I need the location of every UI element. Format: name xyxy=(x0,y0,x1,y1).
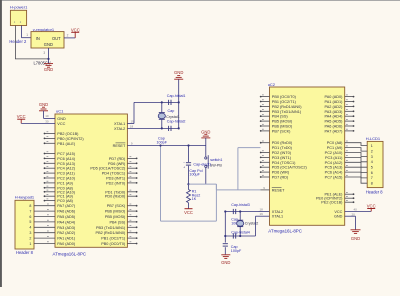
svg-text:XTAL2: XTAL2 xyxy=(272,210,283,214)
svg-text:PD6 (WR): PD6 (WR) xyxy=(108,162,126,166)
svg-text:PA6 (AD6): PA6 (AD6) xyxy=(57,210,76,214)
svg-text:PB2 (RxD1/AIN0): PB2 (RxD1/AIN0) xyxy=(272,105,302,109)
svg-text:2: 2 xyxy=(29,236,31,240)
wire routing loop vertical V2 xyxy=(215,184,217,221)
MCU U2 left pin stub PD0 xyxy=(261,142,270,144)
svg-text:7: 7 xyxy=(371,176,373,180)
svg-text:PC1 (A9): PC1 (A9) xyxy=(327,146,343,150)
switch S1 contacts and lever xyxy=(205,146,207,157)
svg-text:PE2 (OC1B): PE2 (OC1B) xyxy=(321,201,343,205)
svg-text:PD1 (TxD0): PD1 (TxD0) xyxy=(272,146,293,150)
wire ground cap to ground xyxy=(224,247,226,254)
ground symbol at uC2 xyxy=(351,229,361,231)
svg-text:1: 1 xyxy=(29,242,31,246)
svg-text:ATmega16L-8PC: ATmega16L-8PC xyxy=(268,229,302,234)
svg-text:PB4 (SS): PB4 (SS) xyxy=(272,115,289,119)
wire right reset jog H3 xyxy=(215,184,217,190)
svg-text:Crystal1: Crystal1 xyxy=(166,115,180,119)
wire serial vertical V3 xyxy=(237,148,239,190)
wire header pin1 to regulator IN xyxy=(21,26,23,38)
svg-text:GND: GND xyxy=(201,129,210,134)
svg-text:PB2 (RxD1/AIN0): PB2 (RxD1/AIN0) xyxy=(96,231,126,235)
svg-text:PB1 (ALE): PB1 (ALE) xyxy=(57,142,76,146)
svg-text:Cap-histal2: Cap-histal2 xyxy=(167,120,186,124)
svg-text:PB2 (OC1B): PB2 (OC1B) xyxy=(57,132,79,136)
wire serial horizontal H4 to uC2 PD1 xyxy=(238,147,261,149)
junction reset rail to right routing xyxy=(187,183,189,185)
wire reset rail lower xyxy=(188,166,190,190)
MCU U1 left pin names xyxy=(57,117,84,246)
svg-text:Crystal2: Crystal2 xyxy=(245,222,259,226)
svg-text:switch1: switch1 xyxy=(210,158,222,162)
svg-text:PA0 (AD0): PA0 (AD0) xyxy=(57,242,76,246)
wire left rail down to ground cap xyxy=(224,212,226,243)
svg-text:Cap-elect1: Cap-elect1 xyxy=(193,162,211,166)
svg-text:PD3 (INT1): PD3 (INT1) xyxy=(106,177,126,181)
wire header pin2 to ground rail xyxy=(14,26,16,59)
svg-text:30: 30 xyxy=(45,119,49,123)
svg-text:PB4 (SS): PB4 (SS) xyxy=(109,220,126,224)
MCU U2 left pin stubs PD group xyxy=(260,151,270,178)
capacitor C6 plates in ground rail xyxy=(223,243,228,245)
svg-text:XTAL2: XTAL2 xyxy=(114,127,125,131)
svg-text:PA1 (AD1): PA1 (AD1) xyxy=(325,100,344,104)
svg-text:GND: GND xyxy=(44,67,53,72)
svg-text:PC5 (A13): PC5 (A13) xyxy=(325,166,343,170)
svg-text:PA7 (AD7): PA7 (AD7) xyxy=(325,129,344,133)
svg-text:PD0 (RxD0): PD0 (RxD0) xyxy=(272,141,293,145)
svg-text:PD5 (OC1A/TOSC2): PD5 (OC1A/TOSC2) xyxy=(90,167,126,171)
MCU U1 body ATmega16L-8PC xyxy=(55,114,127,247)
capacitor C5 Cap-elect plates xyxy=(186,162,191,164)
svg-text:8: 8 xyxy=(371,182,373,186)
junction node A dots xyxy=(161,101,163,103)
svg-text:PD7 (RD): PD7 (RD) xyxy=(109,157,126,161)
ground symbol below regulator xyxy=(48,59,50,64)
wire uC1 GND pin xyxy=(43,111,45,119)
svg-text:H-keypad1: H-keypad1 xyxy=(15,194,35,199)
MCU U2 left pin stubs PB group xyxy=(260,95,270,132)
page left border strip xyxy=(0,0,2,287)
svg-text:5: 5 xyxy=(371,166,373,170)
svg-text:VCC: VCC xyxy=(17,114,26,119)
power VCC symbol below R1 xyxy=(185,208,193,210)
wire uC2 GND pin xyxy=(345,215,356,217)
wire ground to reset net xyxy=(205,138,207,146)
svg-text:XTAL1: XTAL1 xyxy=(272,215,283,219)
wires uC2 PC pins to LCD header xyxy=(345,141,368,183)
svg-text:XTAL1: XTAL1 xyxy=(114,122,125,126)
svg-text:PC6 (A14): PC6 (A14) xyxy=(325,171,343,175)
svg-text:PA5 (AD5): PA5 (AD5) xyxy=(325,120,344,124)
svg-text:PD4 (TOSC1): PD4 (TOSC1) xyxy=(272,161,296,165)
svg-text:100pF: 100pF xyxy=(157,140,168,144)
svg-text:PC2 (A10): PC2 (A10) xyxy=(325,151,343,155)
svg-text:19: 19 xyxy=(260,212,264,216)
wire uC1 RESET net xyxy=(127,145,205,147)
MCU U1 left pin stubs PC2-PC0 xyxy=(44,190,55,201)
MCU U1 RESET pin overline xyxy=(116,142,126,144)
svg-text:8: 8 xyxy=(29,204,31,208)
svg-text:RESET: RESET xyxy=(113,144,126,148)
svg-text:PA2 (AD2): PA2 (AD2) xyxy=(57,231,76,235)
wire R1 to VCC xyxy=(188,203,190,209)
svg-text:VCC: VCC xyxy=(71,27,80,32)
svg-text:PD7 (RD): PD7 (RD) xyxy=(272,176,289,180)
svg-text:PA6 (AD6): PA6 (AD6) xyxy=(325,125,344,129)
wire right crystal node D xyxy=(225,235,255,237)
svg-text:PC1 (A9): PC1 (A9) xyxy=(57,181,73,185)
svg-text:GND: GND xyxy=(221,260,230,265)
svg-text:PC7 (A15): PC7 (A15) xyxy=(57,152,75,156)
svg-text:19: 19 xyxy=(131,119,135,123)
svg-text:5: 5 xyxy=(29,220,31,224)
svg-text:PB6 (MISO): PB6 (MISO) xyxy=(272,125,293,129)
svg-text:IN: IN xyxy=(36,36,40,41)
svg-text:4: 4 xyxy=(29,226,31,230)
svg-text:PC3 (A11): PC3 (A11) xyxy=(325,156,343,160)
svg-text:40: 40 xyxy=(354,208,358,212)
wire XTAL1 node A xyxy=(134,101,179,103)
svg-text:3: 3 xyxy=(371,155,373,159)
svg-text:ATmega16L-8PC: ATmega16L-8PC xyxy=(53,251,87,256)
svg-text:GND: GND xyxy=(174,70,183,75)
svg-text:Cap-histal1: Cap-histal1 xyxy=(167,94,186,98)
MCU U2 right pin names xyxy=(316,95,343,219)
svg-text:GND: GND xyxy=(44,42,53,47)
svg-text:VCC: VCC xyxy=(184,210,193,215)
svg-text:PB0 (OC0/T0): PB0 (OC0/T0) xyxy=(272,95,297,99)
resistor R1 zigzag xyxy=(187,190,191,203)
svg-text:PA3 (AD3): PA3 (AD3) xyxy=(325,110,344,114)
svg-text:PD0 (RxD0): PD0 (RxD0) xyxy=(105,195,126,199)
svg-text:Cap-histal4: Cap-histal4 xyxy=(231,230,250,234)
regulator U3 body xyxy=(31,32,64,48)
svg-text:GND: GND xyxy=(57,117,66,121)
svg-text:PC6 (A14): PC6 (A14) xyxy=(57,157,75,161)
wire regulator GND pin down xyxy=(48,48,50,59)
svg-text:20: 20 xyxy=(352,212,356,216)
wire reset rail upper xyxy=(188,146,190,163)
svg-text:PC4 (A12): PC4 (A12) xyxy=(325,161,343,165)
svg-text:Header 8: Header 8 xyxy=(16,250,34,255)
wire uC2 XTAL2 connection xyxy=(259,211,270,213)
wire ground rail to cap node xyxy=(178,79,180,128)
svg-text:PB1 (OC2/T1): PB1 (OC2/T1) xyxy=(101,237,126,241)
junction at regulator ground node xyxy=(47,58,49,60)
svg-text:uC1: uC1 xyxy=(56,109,64,114)
svg-text:−: − xyxy=(183,161,185,165)
svg-text:1: 1 xyxy=(371,144,373,148)
ground symbol right crystal xyxy=(221,254,230,256)
wire right crystal node C xyxy=(225,211,258,213)
MCU U2 left pin names xyxy=(272,95,308,219)
svg-text:OUT: OUT xyxy=(52,36,61,41)
svg-text:PA0 (AD0): PA0 (AD0) xyxy=(325,95,344,99)
junction reset rail top xyxy=(187,144,189,146)
MCU U2 body ATmega16L-8PC xyxy=(270,87,345,225)
svg-text:uC2: uC2 xyxy=(268,82,276,87)
svg-text:PD5 (OC1A/TOSC2): PD5 (OC1A/TOSC2) xyxy=(272,166,308,170)
svg-text:+: + xyxy=(183,166,185,170)
wire uC2 VCC pin xyxy=(345,210,372,212)
wire uC1 XTAL2 node B xyxy=(127,127,178,129)
svg-text:PC2 (A10): PC2 (A10) xyxy=(57,190,75,194)
svg-text:PC0 (A8): PC0 (A8) xyxy=(57,199,73,203)
svg-text:Cap: Cap xyxy=(168,109,175,113)
svg-text:VCC: VCC xyxy=(367,203,376,208)
svg-text:18: 18 xyxy=(130,124,134,128)
page top border line xyxy=(0,0,400,1)
svg-text:PD2 (INT0): PD2 (INT0) xyxy=(106,181,126,185)
svg-text:PD1 (TxD0): PD1 (TxD0) xyxy=(105,190,126,194)
svg-text:PC3 (A11): PC3 (A11) xyxy=(57,172,75,176)
svg-text:PC0 (A8): PC0 (A8) xyxy=(327,141,343,145)
header J3 pin numbers 1..8 xyxy=(371,144,373,186)
svg-text:GND: GND xyxy=(351,236,360,241)
MCU U1 left pin stubs PB group xyxy=(44,132,55,144)
svg-text:RESET: RESET xyxy=(272,188,285,192)
MCU U1 right pin stubs xyxy=(127,157,137,245)
svg-text:7: 7 xyxy=(29,209,31,213)
svg-text:100μF: 100μF xyxy=(189,173,200,177)
wire reset to right MCU H2 xyxy=(189,183,217,185)
svg-text:100pF: 100pF xyxy=(231,249,242,253)
svg-text:6: 6 xyxy=(371,171,373,175)
svg-text:PC1 (A9): PC1 (A9) xyxy=(57,195,73,199)
wire routing loop vertical V1 xyxy=(160,146,162,222)
capacitor C1 Cap-histal1 plates xyxy=(168,100,170,105)
MCU U1 right pin names xyxy=(90,122,126,246)
wire routing loop bottom H1 xyxy=(161,220,217,222)
svg-text:PA5 (AD5): PA5 (AD5) xyxy=(57,215,76,219)
MCU U2 RESET stub xyxy=(261,189,270,191)
svg-text:PC4 (A12): PC4 (A12) xyxy=(57,167,75,171)
svg-text:PD3 (INT1): PD3 (INT1) xyxy=(272,156,292,160)
svg-text:4: 4 xyxy=(371,160,373,164)
svg-text:2: 2 xyxy=(67,34,69,38)
header J2 body xyxy=(15,200,34,249)
svg-text:H-power1: H-power1 xyxy=(10,5,28,10)
svg-text:Header 8: Header 8 xyxy=(366,190,384,195)
svg-text:3: 3 xyxy=(43,51,45,55)
svg-text:PB5 (MOSI): PB5 (MOSI) xyxy=(272,120,293,124)
MCU U1 left pin stubs PC group xyxy=(44,152,55,189)
svg-text:3: 3 xyxy=(29,231,31,235)
svg-text:1: 1 xyxy=(26,33,28,37)
capacitor C4 plates xyxy=(232,233,234,238)
header J3 body xyxy=(367,141,383,187)
svg-text:PB7 (SCK): PB7 (SCK) xyxy=(107,204,126,208)
wire uC2 XTAL1 connection xyxy=(256,215,270,217)
svg-text:GND: GND xyxy=(334,215,343,219)
svg-text:PC2 (A10): PC2 (A10) xyxy=(57,177,75,181)
svg-text:PB7 (SCK): PB7 (SCK) xyxy=(272,129,291,133)
svg-text:18: 18 xyxy=(260,207,264,211)
junction node B dots xyxy=(161,127,163,129)
header J2 pin numbers 8..1 xyxy=(29,204,31,246)
svg-text:PA3 (AD3): PA3 (AD3) xyxy=(57,226,76,230)
svg-text:PB0 (ICP/INT2): PB0 (ICP/INT2) xyxy=(57,137,84,141)
crystal Y1 vertical between nodes xyxy=(161,102,163,112)
svg-text:PA4 (AD4): PA4 (AD4) xyxy=(57,220,76,224)
svg-text:PB3 (TxD1/AIN1): PB3 (TxD1/AIN1) xyxy=(272,110,302,114)
MCU U2 right pin stubs PE group xyxy=(345,193,355,204)
svg-text:PC7 (A15): PC7 (A15) xyxy=(325,176,343,180)
header J1 body xyxy=(10,10,26,25)
capacitor C2 Cap-histal2 plates xyxy=(168,126,170,131)
svg-text:1K: 1K xyxy=(192,197,197,201)
svg-text:H-LCD1: H-LCD1 xyxy=(366,136,381,141)
svg-text:VCC: VCC xyxy=(334,210,342,214)
junction right crystal dots xyxy=(239,210,241,212)
svg-text:PA4 (AD4): PA4 (AD4) xyxy=(325,115,344,119)
junction V1 top xyxy=(159,144,161,146)
svg-text:GND: GND xyxy=(39,102,48,107)
wire regulator OUT to VCC xyxy=(64,37,75,39)
svg-text:PD4 (TOSC1): PD4 (TOSC1) xyxy=(102,172,126,176)
svg-text:PD6 (WR): PD6 (WR) xyxy=(272,171,290,175)
svg-text:PD2 (INT0): PD2 (INT0) xyxy=(272,151,292,155)
svg-text:PA1 (AD1): PA1 (AD1) xyxy=(57,237,76,241)
svg-text:PB0 (OC0/T0): PB0 (OC0/T0) xyxy=(101,242,126,246)
svg-text:PB1 (OC2/T1): PB1 (OC2/T1) xyxy=(272,100,297,104)
svg-text:PB5 (MOSI): PB5 (MOSI) xyxy=(105,215,126,219)
MCU U2 right pin stubs PA group xyxy=(345,95,355,132)
svg-text:PA7 (AD7): PA7 (AD7) xyxy=(57,204,76,208)
svg-text:Cap-histal3: Cap-histal3 xyxy=(231,203,250,207)
wire uC1 VCC pin xyxy=(21,122,55,124)
svg-text:PB6 (MISO): PB6 (MISO) xyxy=(105,210,126,214)
wire uC1 XTAL1 jog xyxy=(127,123,134,125)
svg-text:6: 6 xyxy=(29,215,31,219)
svg-text:Header 2: Header 2 xyxy=(9,39,27,44)
svg-text:VCC: VCC xyxy=(57,122,65,126)
svg-text:PA2 (AD2): PA2 (AD2) xyxy=(325,105,344,109)
svg-text:PC5 (A13): PC5 (A13) xyxy=(57,162,75,166)
capacitor C3 plates xyxy=(232,209,234,214)
crystal Y2 vertical xyxy=(239,212,241,220)
svg-text:2: 2 xyxy=(371,149,373,153)
MCU U2 RESET pin overline xyxy=(272,186,282,188)
svg-text:SW-PB: SW-PB xyxy=(210,163,223,167)
svg-text:PB3 (TxD1/AIN1): PB3 (TxD1/AIN1) xyxy=(96,226,126,230)
wires keypad to uC1 PA pins xyxy=(34,204,55,244)
svg-text:10: 10 xyxy=(45,114,49,118)
